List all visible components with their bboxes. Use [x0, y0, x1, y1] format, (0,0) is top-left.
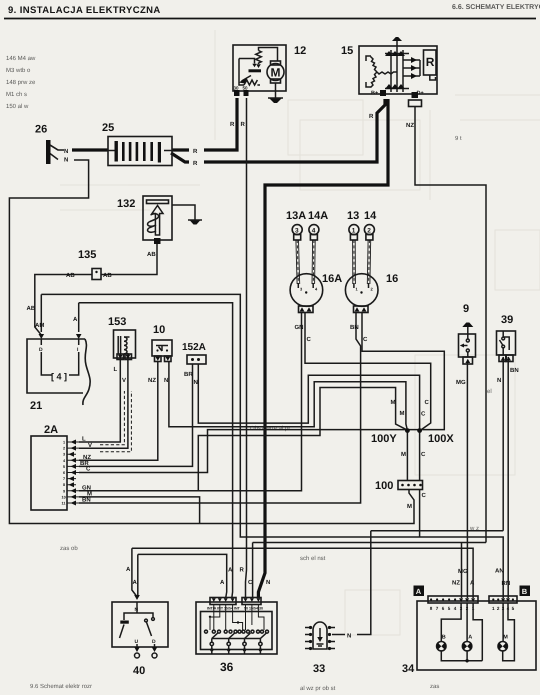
svg-text:21: 21 [30, 400, 42, 412]
alternator 15 [341, 37, 437, 107]
svg-text:R: R [241, 121, 246, 128]
wire N: 39 left pin down to bus [502, 357, 504, 531]
svg-text:C: C [425, 399, 430, 406]
instrument panel 34 [402, 586, 536, 676]
wire GN: coil 16A to 2A pin9 [79, 312, 302, 491]
svg-text:NZ: NZ [452, 580, 460, 587]
svg-text:16A: 16A [322, 273, 342, 285]
HT lead 14-16 [367, 240, 370, 284]
svg-text:sch el nst: sch el nst [300, 555, 326, 562]
warning lamp M [498, 642, 507, 651]
svg-text:50 15/54 30: 50 15/54 30 [244, 607, 263, 611]
svg-text:C: C [421, 411, 426, 418]
svg-text:A: A [228, 567, 233, 574]
svg-text:zas ob: zas ob [60, 545, 78, 552]
svg-text:39: 39 [501, 314, 513, 326]
connector 2A [31, 424, 67, 510]
brake / warning switch 39 [497, 314, 516, 362]
svg-text:NZ: NZ [148, 377, 156, 384]
svg-text:100Y: 100Y [371, 433, 397, 445]
svg-text:INT/A INT 15/54 INT: INT/A INT 15/54 INT [207, 607, 241, 611]
svg-text:4: 4 [312, 227, 316, 234]
svg-text:5: 5 [63, 465, 65, 469]
svg-text:C: C [421, 451, 426, 458]
diode bridge columns [391, 50, 403, 92]
svg-text:MG: MG [458, 568, 468, 575]
svg-text:A: A [416, 587, 422, 596]
wire BN/RN: 39 right to 34 B4 [507, 357, 509, 598]
svg-text:153: 153 [108, 316, 126, 328]
svg-text:135: 135 [78, 249, 96, 261]
wire B+ branch down to ignition switch 30 (thick, N) [258, 99, 388, 598]
spark plug 14 [364, 210, 377, 240]
wire 33 earth feed from bus [357, 531, 371, 635]
HT lead 13A-16A [296, 240, 300, 284]
wire C from connector 100 down to y537 [419, 490, 421, 538]
spark plug 14A [308, 210, 328, 240]
svg-text:3: 3 [295, 227, 299, 234]
ground under motor 12 [275, 91, 277, 98]
ground for 132 [190, 220, 201, 225]
svg-text:L: L [82, 436, 86, 443]
svg-text:132: 132 [117, 198, 135, 210]
resistor R inside 12 [256, 51, 262, 65]
starter relay 12 [233, 45, 306, 103]
svg-text:7: 7 [63, 477, 65, 481]
wire fuse to alternator B+ (thick, R) [171, 153, 189, 162]
svg-text:C: C [363, 336, 368, 343]
wire C: coil 16 to 2A pin6 [79, 312, 444, 473]
spark plug 13 [347, 210, 359, 240]
wire AN: 21 left feed y294.4 down and across to 34 B3 [41, 294, 503, 598]
svg-text:33: 33 [313, 663, 325, 675]
svg-text:3: 3 [63, 453, 65, 457]
svg-text:GN: GN [82, 484, 91, 491]
svg-text:2: 2 [367, 227, 371, 234]
wire L: 153 to 2A pin1 [79, 358, 120, 442]
svg-text:MG: MG [456, 379, 466, 386]
svg-text:M3 wtb o: M3 wtb o [6, 67, 31, 74]
ignition coil 16 [345, 273, 398, 313]
svg-text:R: R [240, 567, 245, 574]
svg-text:C: C [307, 336, 312, 343]
motor M inside 12 [267, 64, 284, 81]
svg-text:34: 34 [402, 663, 415, 675]
svg-text:M: M [391, 399, 396, 406]
svg-text:C: C [248, 579, 253, 586]
stator Y winding [371, 57, 378, 73]
svg-text:B: B [442, 635, 446, 641]
svg-text:N: N [64, 148, 68, 155]
svg-text:A: A [73, 316, 78, 323]
svg-text:AB: AB [66, 272, 75, 279]
wire 100X output C [419, 431, 421, 481]
warning lamp B [437, 642, 446, 651]
connector 135 [78, 249, 101, 280]
svg-text:40: 40 [133, 665, 145, 677]
svg-text:N: N [164, 377, 168, 384]
svg-text:1: 1 [352, 227, 356, 234]
svg-text:25: 25 [102, 122, 114, 134]
wire BR: 152A to 2A pin5 [79, 364, 193, 466]
svg-text:50: 50 [243, 86, 249, 91]
svg-text:[ 4 ]: [ 4 ] [51, 372, 67, 382]
regulator R box [424, 50, 437, 75]
svg-text:152A: 152A [182, 342, 206, 353]
wire R: starter 50 to ignition switch 50 [246, 98, 247, 598]
svg-text:2: 2 [63, 447, 65, 451]
svg-text:NZ: NZ [83, 454, 91, 461]
wire NZ: 10 to 2A pin4 [79, 361, 158, 460]
wire fuse to starter 30 (thick, R) [172, 148, 189, 151]
svg-text:14A: 14A [308, 210, 328, 222]
svg-text:V: V [88, 442, 92, 449]
field diodes row [403, 60, 420, 76]
svg-text:C: C [86, 466, 91, 473]
svg-text:B: B [522, 587, 528, 596]
wire N: 152A to 100X [198, 364, 419, 429]
svg-text:36: 36 [220, 660, 234, 674]
wire AB: 132 via 135 to 21 [101, 240, 157, 275]
wire BN: coil 16 to 2A pin11 [79, 312, 361, 503]
connector 152A [182, 342, 206, 364]
svg-text:M: M [400, 410, 405, 417]
svg-text:A: A [133, 579, 138, 586]
svg-text:M: M [407, 503, 412, 510]
wire battery ground N: left border run to 33 [50, 154, 58, 160]
HT lead 13-16 [353, 240, 356, 284]
svg-text:zas: zas [430, 684, 439, 690]
wire NZ: D+ to panel 34 A3 [415, 107, 486, 543]
svg-text:A: A [220, 579, 225, 586]
svg-text:100X: 100X [428, 433, 454, 445]
fuse box 25 [102, 122, 172, 166]
relay contact inside 12 [239, 59, 255, 64]
svg-text:AN: AN [495, 568, 504, 575]
svg-text:148 prw ze: 148 prw ze [6, 79, 36, 86]
svg-text:R: R [230, 121, 235, 128]
svg-text:30: 30 [234, 86, 240, 91]
34 internal wiring [441, 603, 514, 661]
svg-text:BN: BN [510, 367, 519, 374]
contact breaker 10 [152, 324, 172, 362]
wire bus y530.8 to 39 [371, 530, 503, 532]
svg-text:BR: BR [184, 371, 193, 378]
svg-text:R: R [193, 148, 198, 155]
svg-text:100: 100 [375, 480, 393, 492]
svg-text:146 M4 aw: 146 M4 aw [6, 55, 36, 62]
wire GN riser to 100Y left input [198, 388, 406, 492]
wire MG: oil switch 9 to 34 A2 [466, 363, 468, 598]
wire N: contact breaker 10 to 100Y [169, 361, 407, 429]
svg-text:AB: AB [147, 251, 156, 258]
connector 2A pin stubs with arrows [67, 442, 79, 503]
wire 100Y output M [406, 431, 408, 481]
wire V: 153 to 2A pin2 (screened) [79, 358, 128, 448]
svg-text:V: V [122, 377, 126, 384]
svg-text:N: N [266, 579, 270, 586]
svg-text:R: R [426, 55, 435, 69]
oil pressure switch 9 [459, 303, 476, 364]
svg-text:A: A [468, 635, 472, 641]
svg-text:M: M [87, 490, 92, 497]
wire 33 N stub [332, 634, 345, 636]
svg-text:M: M [503, 635, 508, 641]
svg-text:A: A [470, 580, 475, 587]
wire A: 21 right feed down to 36 [79, 303, 233, 598]
svg-text:M: M [401, 451, 406, 458]
junction 100X [417, 428, 422, 433]
ground on top of 15 [396, 41, 398, 50]
svg-text:13A: 13A [286, 210, 306, 222]
svg-text:AB: AB [103, 272, 112, 279]
ignition coil 16A [290, 273, 342, 313]
svg-text:NZ: NZ [406, 122, 414, 129]
svg-text:12: 12 [294, 45, 306, 57]
HT lead 14A-16A [312, 240, 315, 284]
svg-text:1: 1 [63, 441, 65, 445]
svg-text:13: 13 [347, 210, 359, 222]
screen dashes around V wire [100, 391, 124, 445]
svg-text:9.6 Schemat elektr rozr: 9.6 Schemat elektr rozr [30, 683, 92, 690]
wire A bus y548.3 40 to 34 A1 [132, 548, 473, 598]
junction 100Y [405, 428, 410, 433]
svg-text:9. INSTALACJA ELEKTRYCZNA: 9. INSTALACJA ELEKTRYCZNA [8, 5, 161, 16]
ignition coil ballast 153 [108, 316, 136, 360]
svg-text:2A: 2A [44, 424, 58, 436]
svg-text:N: N [194, 379, 198, 386]
svg-text:AM: AM [35, 322, 44, 329]
svg-text:N: N [64, 157, 68, 164]
svg-text:14: 14 [364, 210, 377, 222]
svg-text:9 t: 9 t [455, 135, 462, 142]
ignition switch 36 [196, 598, 277, 675]
lighting switch 40 [112, 595, 168, 677]
svg-text:R: R [369, 113, 374, 120]
svg-text:9: 9 [463, 303, 469, 315]
svg-text:B+: B+ [371, 91, 378, 97]
svg-text:BN: BN [350, 324, 359, 331]
svg-text:R: R [193, 160, 198, 167]
instrument cluster 21 (partial) [27, 334, 90, 412]
svg-text:RN: RN [502, 580, 511, 587]
wire A bus y554.4 40 to 36 [138, 554, 227, 598]
svg-text:11: 11 [62, 502, 66, 506]
svg-text:15: 15 [341, 45, 353, 57]
svg-text:150 al w: 150 al w [6, 103, 29, 110]
svg-text:al wz pr ob st: al wz pr ob st [300, 685, 336, 692]
svg-text:BN: BN [82, 497, 91, 504]
warning lamp A [462, 642, 471, 651]
svg-text:A: A [126, 566, 131, 573]
battery clamp 26 [35, 124, 58, 165]
svg-text:10: 10 [153, 324, 165, 336]
wire battery feed to fuse (thick, N) [50, 145, 64, 150]
svg-text:12345: 12345 [492, 606, 516, 611]
spark plug 13A [286, 210, 306, 240]
svg-text:87654321: 87654321 [430, 606, 478, 611]
wire C: coil 16A to 100X [305, 312, 431, 430]
svg-text:10: 10 [62, 495, 66, 499]
svg-text:9: 9 [63, 489, 65, 493]
svg-text:8: 8 [63, 483, 65, 487]
svg-text:6.6. SCHEMATY ELEKTRYCZNE: 6.6. SCHEMATY ELEKTRYCZNE [452, 4, 540, 11]
svg-text:C: C [422, 492, 427, 499]
svg-text:GN: GN [295, 324, 304, 331]
svg-text:N: N [497, 377, 501, 384]
svg-text:el: el [487, 388, 492, 395]
svg-text:6: 6 [63, 471, 65, 475]
svg-text:M1 ch s: M1 ch s [6, 91, 27, 98]
wire 132 ground lead [172, 205, 195, 220]
fuel gauge sender 132 [117, 196, 172, 244]
svg-text:M: M [271, 66, 281, 80]
svg-text:N: N [347, 633, 351, 640]
svg-text:26: 26 [35, 124, 47, 136]
connector 100 [375, 480, 423, 492]
wire NZ/C horizontal y542.5 [253, 542, 486, 544]
wire M: 2A pin10 to connector 100 [79, 497, 200, 524]
svg-text:16: 16 [386, 273, 398, 285]
svg-text:AB: AB [27, 305, 36, 312]
svg-text:L: L [114, 366, 118, 373]
earth connector 33 [305, 622, 335, 675]
